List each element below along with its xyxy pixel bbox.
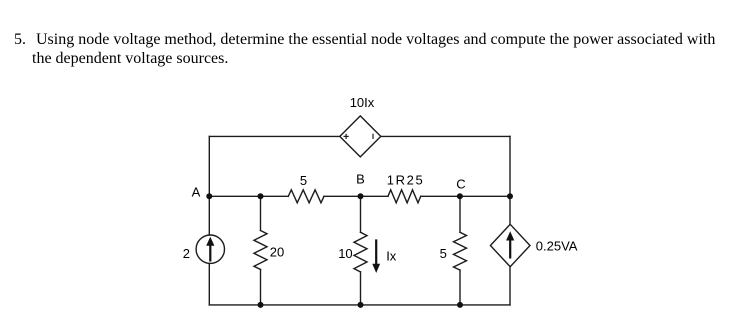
- junction node B dot: [358, 193, 364, 199]
- junction dot bottom rail x460: [457, 302, 463, 308]
- resistor 10 body: [354, 232, 367, 272]
- svg-text:10: 10: [338, 246, 352, 261]
- wire bottom rail: [209, 304, 510, 306]
- problem statement line 1: [36, 32, 715, 48]
- wire top rail right segment: [381, 135, 510, 137]
- wire resistor 20 bottom lead: [260, 270, 262, 305]
- junction dot bottom rail x360: [358, 302, 364, 308]
- svg-text:10Ix: 10Ix: [350, 95, 375, 110]
- resistor 5 body: [288, 190, 324, 203]
- svg-text:5: 5: [300, 173, 307, 188]
- dependent voltage source U1 diamond 10Ix: [340, 116, 381, 157]
- wire resistor 5b bottom lead: [459, 270, 461, 305]
- wire middle rail A to resistor 5: [209, 195, 288, 197]
- svg-text:0.25VA: 0.25VA: [536, 238, 578, 253]
- wire left vertical top: [208, 136, 210, 196]
- wire resistor 5b top lead: [459, 196, 461, 232]
- svg-text:A: A: [192, 185, 201, 200]
- wire top rail left segment: [209, 135, 339, 137]
- svg-text:5: 5: [440, 246, 447, 261]
- wire middle rail resistor 5 to resistor 1R25: [324, 195, 388, 197]
- controlling current arrow Ix: [372, 239, 380, 273]
- wire right vertical top: [509, 136, 511, 196]
- wire resistor 10 bottom lead: [360, 272, 362, 305]
- dependent source U2 arrow: [506, 231, 514, 258]
- current source I1 circle: [196, 235, 224, 263]
- svg-text:C: C: [456, 177, 465, 192]
- junction dot middle rail x260: [258, 193, 264, 199]
- wire resistor 10 top lead: [360, 196, 362, 232]
- wire left vertical A to current source: [208, 196, 210, 235]
- problem statement line 2: [32, 51, 228, 67]
- resistor 5b body: [454, 232, 467, 270]
- problem statement line 1 number: [14, 32, 26, 48]
- junction dot middle rail x510: [507, 193, 513, 199]
- wire left vertical current source to bottom: [208, 263, 210, 305]
- dependent current source U2 diamond 0.25VA: [490, 224, 530, 266]
- svg-text:B: B: [356, 172, 365, 187]
- junction dot bottom rail x260: [258, 302, 264, 308]
- junction node A dot: [206, 193, 212, 199]
- wire right vertical source to bottom: [509, 267, 511, 305]
- current source I1 arrow: [206, 237, 214, 262]
- wire right vertical middle to source: [509, 196, 511, 224]
- plus sign inside U1: [344, 134, 374, 139]
- svg-text:2: 2: [183, 246, 190, 261]
- svg-text:20: 20: [270, 244, 284, 259]
- svg-text:Ix: Ix: [386, 249, 397, 264]
- junction node C dot: [457, 193, 463, 199]
- wire resistor 20 top lead: [260, 196, 262, 230]
- wire middle rail resistor 1R25 to right vertical: [421, 195, 510, 197]
- resistor 20 body: [254, 231, 267, 270]
- resistor 1R25 body: [388, 190, 421, 203]
- minus bar inside U1: [372, 134, 374, 139]
- svg-text:1R25: 1R25: [387, 173, 424, 188]
